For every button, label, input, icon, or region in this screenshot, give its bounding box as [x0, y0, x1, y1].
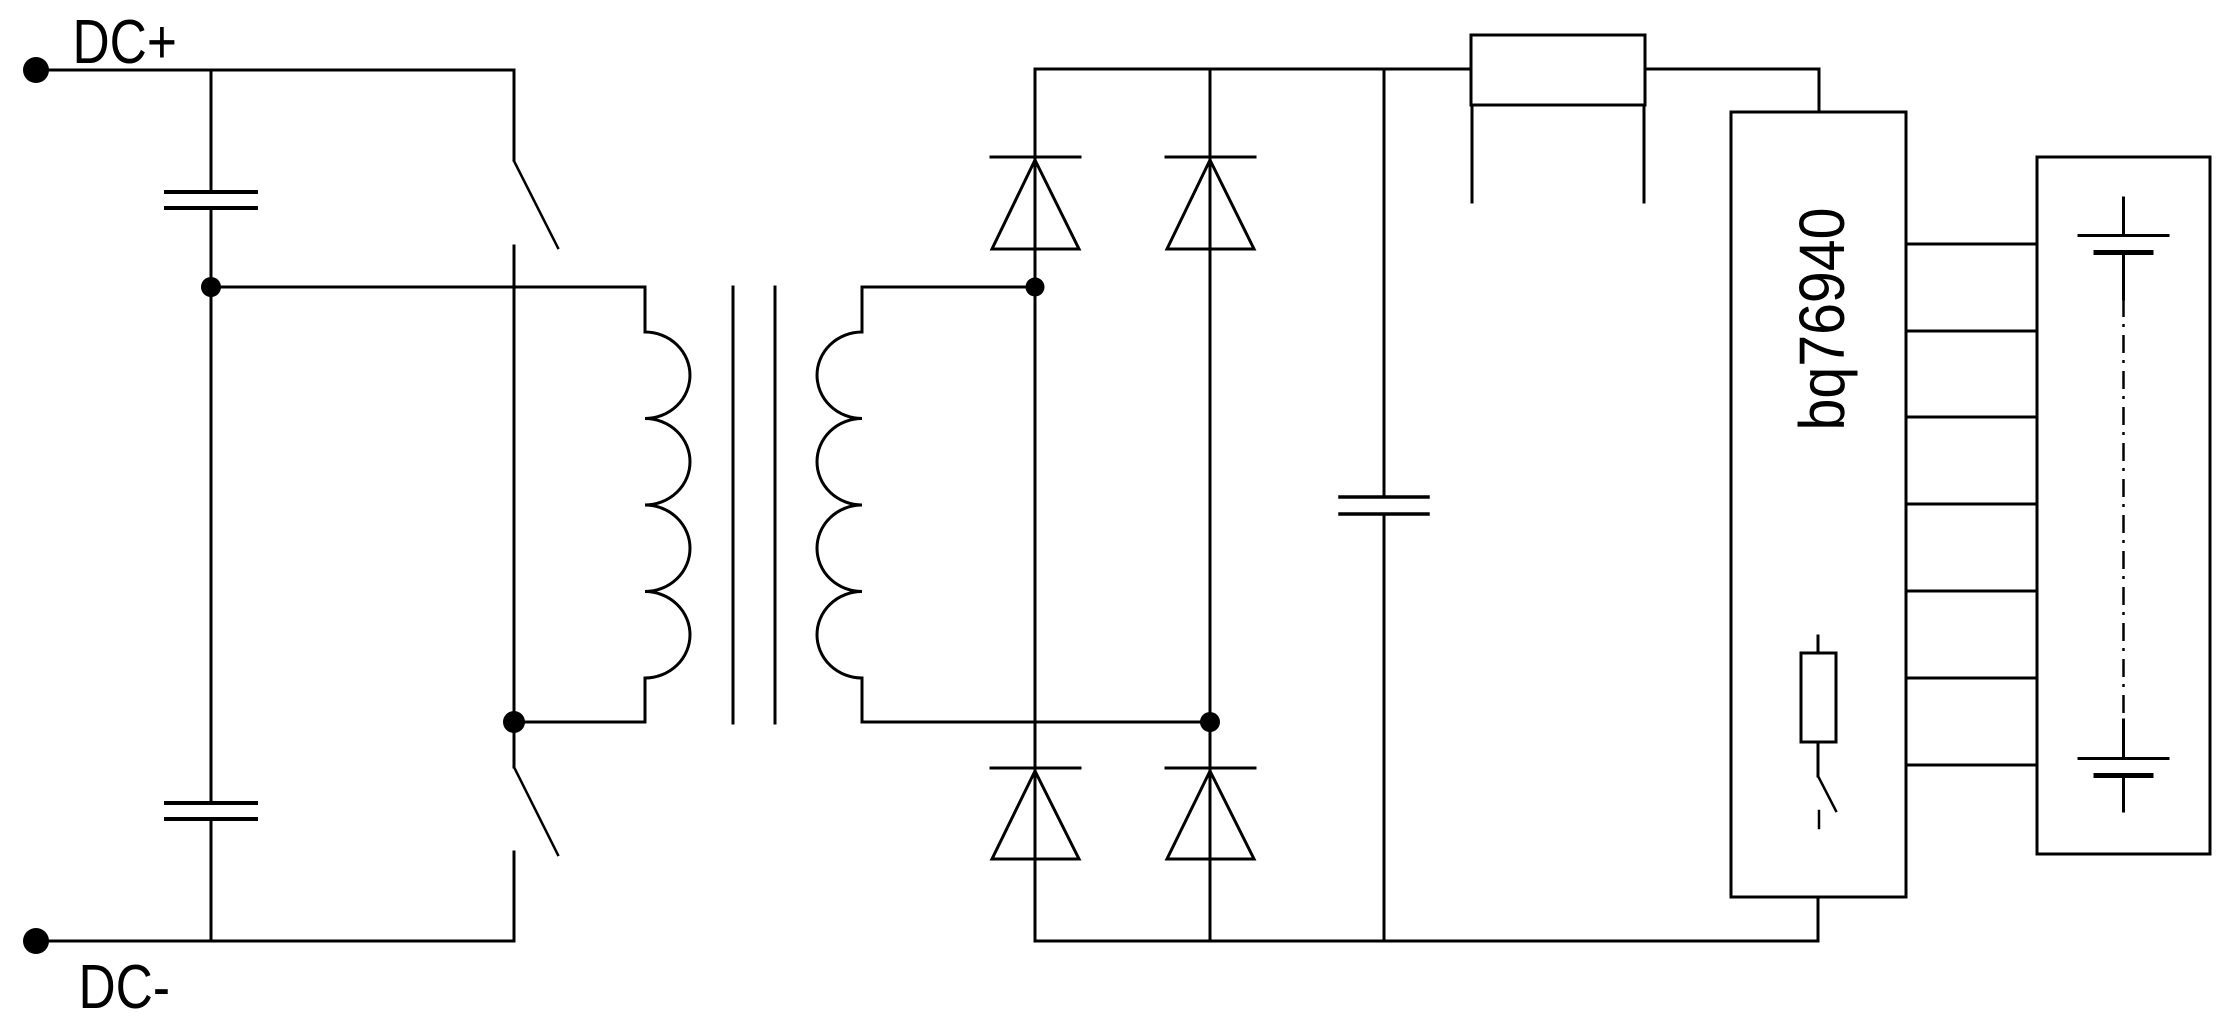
capacitor C1 — [166, 192, 256, 208]
switch S3 (internal to U1) blade — [1818, 776, 1836, 811]
resistor R2 (internal to U1) — [1801, 636, 1836, 776]
wire S1 lower contact down to node B — [513, 246, 516, 722]
svg-text:DC-: DC- — [79, 953, 170, 1022]
pin 1 (U1 to battery) — [1906, 243, 2037, 246]
transformer T1 core line right — [774, 287, 777, 723]
resistor R1 (current sense shunt) — [1471, 35, 1645, 105]
wire bridge left branch — [1034, 69, 1037, 941]
switch S3 lower contact — [1818, 811, 1821, 828]
wire bridge right branch — [1209, 69, 1212, 941]
wire secondary bottom (winding to node D) — [862, 721, 1210, 724]
switch S2 blade — [514, 767, 558, 855]
svg-text:bq76940: bq76940 — [1786, 208, 1858, 431]
transformer T1 primary winding — [645, 287, 690, 722]
wire secondary top (winding to node C) — [862, 286, 1035, 289]
battery BT1 stack dash-dot line — [2122, 299, 2125, 720]
wire left rail lower (C2 to DC- rail) — [210, 819, 213, 941]
switch S2 (lower) top lead — [513, 722, 516, 767]
battery BT1 top cell — [2079, 198, 2168, 299]
node D (secondary bottom / bridge right midpoint) — [1200, 712, 1220, 732]
pin 4 — [1906, 503, 2037, 506]
switch S1 (upper) blade — [514, 161, 558, 248]
pin 2 — [1906, 330, 2037, 333]
capacitor C2 — [166, 803, 256, 819]
battery BT1 pack outline — [2037, 157, 2210, 854]
diode D3 (lower left) — [991, 768, 1080, 859]
node C (secondary top / bridge left midpoint) — [1026, 278, 1045, 297]
pin 6 — [1906, 677, 2037, 680]
capacitor C3 — [1340, 497, 1428, 514]
svg-text:DC+: DC+ — [73, 8, 177, 78]
wire rectifier bottom rail to U1 bottom — [1035, 897, 1818, 941]
node B (primary return junction) — [503, 711, 525, 733]
terminal DC+ — [23, 57, 49, 83]
wire shunt sense stub left — [1471, 105, 1474, 202]
op-amp U1 bq76940 package outline — [1731, 112, 1906, 897]
terminal DC- — [23, 928, 49, 954]
diode D4 (lower right) — [1166, 768, 1255, 859]
pin 5 — [1906, 590, 2037, 593]
wire left rail middle (C1 to C2) — [210, 208, 213, 803]
wire DC+ top rail into switch S1 top lead — [36, 70, 514, 160]
pin 3 — [1906, 416, 2037, 419]
battery BT1 bottom cell — [2079, 720, 2168, 811]
wire primary top (node A to winding) — [211, 286, 645, 289]
wire rectifier output top rail — [1035, 68, 1471, 71]
capacitor C3 bottom lead — [1383, 514, 1386, 941]
wire primary bottom (node B to winding) — [514, 721, 645, 724]
wire left rail upper (DC+ to C1) — [210, 70, 213, 192]
wire DC- bottom rail into switch S2 lower contact — [36, 852, 514, 941]
wire shunt sense stub right — [1643, 105, 1646, 202]
diode D2 (upper right) — [1166, 157, 1255, 249]
node A (C1/C2 midpoint junction) — [201, 277, 221, 297]
diode D1 (upper left) — [991, 157, 1080, 249]
capacitor C3 top lead — [1383, 69, 1386, 497]
transformer T1 secondary winding — [817, 287, 862, 722]
transformer T1 core line left — [732, 287, 735, 723]
pin 7 — [1906, 764, 2037, 767]
wire shunt to U1 top — [1645, 69, 1819, 112]
